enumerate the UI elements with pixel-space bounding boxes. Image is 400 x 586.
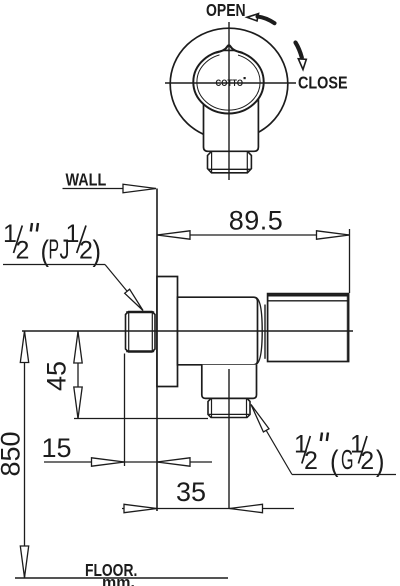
- dimension 45: [42, 332, 209, 419]
- svg-text:): ): [376, 445, 385, 478]
- side view: outlet threaded nipple: [208, 398, 250, 417]
- top view: valve body block: [204, 98, 259, 151]
- top view: handle top notch: [216, 45, 243, 56]
- side view: bonnet ring: [265, 304, 268, 360]
- top view: bottom threaded connector: [208, 151, 252, 173]
- leader line for G label: [251, 405, 396, 475]
- side view: wall line: [156, 189, 158, 512]
- svg-text:89.5: 89.5: [229, 206, 284, 236]
- OPEN rotation arrow: [247, 14, 275, 24]
- CLOSE label: [298, 73, 348, 93]
- svg-text:2: 2: [16, 237, 30, 265]
- OPEN label: [206, 2, 246, 21]
- svg-text:2: 2: [360, 447, 374, 475]
- svg-text:1: 1: [66, 220, 80, 248]
- FLOOR label: [85, 560, 137, 580]
- label 1/2"(PJ1/2) inlet thread: [3, 220, 101, 268]
- CLOSE rotation arrow: [296, 43, 307, 70]
- side view: handle cylinder: [268, 294, 349, 362]
- dimension 850: [0, 331, 29, 578]
- side view: outlet block: [202, 365, 257, 399]
- side view: valve body cylinder: [178, 297, 263, 365]
- svg-text:WALL: WALL: [66, 170, 107, 190]
- side view: outlet vertical centerline: [228, 369, 230, 509]
- svg-text:2: 2: [304, 447, 318, 475]
- top view: COTTO logo: [216, 77, 246, 88]
- dimension 89.5: [157, 206, 350, 294]
- dimension 35: [122, 477, 294, 513]
- leader line for PJ label: [3, 265, 143, 311]
- dimension 15: [42, 354, 213, 467]
- svg-text:2: 2: [79, 237, 93, 265]
- svg-text:15: 15: [42, 433, 72, 463]
- label 1/2"(G1/2) outlet thread: [294, 431, 385, 479]
- svg-text:mm.: mm.: [102, 575, 135, 586]
- WALL leader line with arrow: [63, 184, 157, 193]
- svg-text:): ): [93, 235, 102, 268]
- side view: inlet threaded connector (through wall): [126, 312, 156, 353]
- svg-text:(: (: [330, 445, 339, 478]
- floor line: [15, 577, 228, 579]
- top view: handle knob circle: [193, 51, 263, 114]
- top view: horizontal centerline: [165, 82, 296, 84]
- side view: horizontal centerline: [22, 330, 353, 332]
- WALL label: [66, 170, 107, 190]
- mm label: [102, 575, 135, 586]
- top view: vertical centerline: [228, 22, 230, 180]
- svg-text:OPEN: OPEN: [206, 2, 246, 21]
- svg-text:45: 45: [42, 361, 72, 391]
- svg-text:35: 35: [176, 477, 206, 507]
- top view: flange outer circle: [170, 28, 288, 140]
- svg-text:CLOSE: CLOSE: [298, 73, 348, 93]
- svg-text:850: 850: [0, 431, 26, 476]
- side view: wall flange plate: [157, 277, 178, 387]
- svg-text:P: P: [49, 234, 60, 265]
